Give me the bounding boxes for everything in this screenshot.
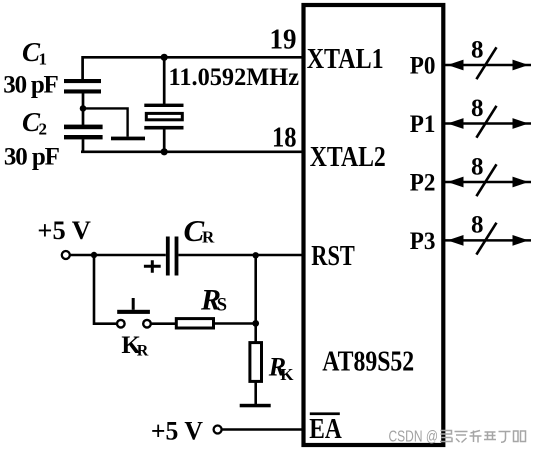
terminal circle +5V top xyxy=(62,251,70,259)
node junction RS/RK xyxy=(252,320,259,327)
svg-text:P0: P0 xyxy=(410,52,436,79)
terminal circle +5V bottom xyxy=(214,426,222,434)
ground bar (oscillator) xyxy=(111,137,145,141)
svg-text:XTAL1: XTAL1 xyxy=(307,43,384,75)
wire +5V down to switch xyxy=(94,255,117,324)
wire junction to RK xyxy=(254,323,257,344)
svg-text:RST: RST xyxy=(311,240,355,272)
resistor RK body xyxy=(250,343,262,382)
switch KR stem xyxy=(132,298,135,310)
wire pin18 rail from C2 bottom to XTAL2 xyxy=(81,139,302,152)
svg-text:8: 8 xyxy=(471,212,484,239)
svg-text:P1: P1 xyxy=(410,111,436,138)
svg-text:30 pF: 30 pF xyxy=(4,144,60,171)
svg-text:CSDN @: CSDN @ xyxy=(389,429,439,446)
node junction between C1 and C2 xyxy=(80,105,87,112)
switch KR right contact xyxy=(143,320,151,328)
wire crystal bottom stem xyxy=(163,130,166,152)
crystal Y1 bottom plate xyxy=(144,126,183,130)
port P1 group xyxy=(410,95,531,138)
svg-text:11.0592MHz: 11.0592MHz xyxy=(169,64,300,91)
wire ground branch xyxy=(83,108,128,136)
wire pin19 rail from C1 top to XTAL1 xyxy=(83,57,302,79)
CR polarity plus sign xyxy=(144,260,161,273)
svg-text:18: 18 xyxy=(272,123,297,154)
svg-text:AT89S52: AT89S52 xyxy=(322,347,414,378)
port P3 group xyxy=(410,212,531,255)
capacitor C2 bottom plate xyxy=(64,135,103,139)
bus slash P1 xyxy=(476,106,496,138)
capacitor CR right plate xyxy=(175,237,179,276)
crystal Y1 top plate xyxy=(144,104,183,107)
svg-text:8: 8 xyxy=(471,36,484,63)
wire +5V to EA xyxy=(222,428,302,431)
node junction on RST wire xyxy=(253,252,259,258)
capacitor C2 top plate xyxy=(64,125,103,130)
switch KR bridge bar xyxy=(117,310,150,314)
capacitor C1 bottom plate xyxy=(64,89,101,93)
wire C1 to C2 xyxy=(82,94,85,126)
svg-text:R: R xyxy=(202,228,215,247)
capacitor C1 top plate xyxy=(64,79,101,83)
port P2 group xyxy=(410,153,531,196)
bus arrow P0 xyxy=(445,64,531,67)
svg-text:P2: P2 xyxy=(410,169,436,196)
bus slash P0 xyxy=(476,47,496,79)
bus slash P3 xyxy=(476,223,496,255)
svg-text:XTAL2: XTAL2 xyxy=(310,141,386,173)
node junction on pin18 rail xyxy=(161,148,168,155)
port P0 group xyxy=(410,36,531,79)
svg-text:+5 V: +5 V xyxy=(151,417,203,446)
bus arrow P3 xyxy=(445,239,531,242)
bus arrow P1 xyxy=(445,122,531,125)
svg-text:K: K xyxy=(280,365,294,384)
svg-text:S: S xyxy=(217,296,227,316)
wire junction down to RS node xyxy=(254,255,257,323)
resistor RS body xyxy=(176,319,213,328)
wire crystal top stem xyxy=(163,57,166,104)
svg-text:30 pF: 30 pF xyxy=(3,72,59,99)
svg-text:2: 2 xyxy=(39,120,48,139)
svg-text:P3: P3 xyxy=(410,228,436,255)
svg-text:+5 V: +5 V xyxy=(37,216,91,245)
wire +5V to C_R xyxy=(70,254,166,257)
node junction on pin19 rail xyxy=(161,54,168,61)
switch KR left contact xyxy=(117,320,125,328)
bus slash P2 xyxy=(476,164,496,196)
wire RS to junction xyxy=(215,322,256,325)
svg-text:R: R xyxy=(137,343,149,360)
bus arrow P2 xyxy=(445,181,531,184)
wire switch to RS xyxy=(151,322,176,325)
EA overline xyxy=(310,412,340,415)
capacitor CR left plate xyxy=(166,237,170,276)
wire RK to ground xyxy=(254,381,257,404)
crystal Y1 body box xyxy=(146,113,182,119)
svg-text:EA: EA xyxy=(309,413,342,445)
IC U1 AT89S52 body xyxy=(304,5,444,445)
svg-text:19: 19 xyxy=(270,25,297,56)
svg-text:1: 1 xyxy=(39,50,48,69)
ground bar (RK) xyxy=(240,404,271,408)
wire C_R to RST xyxy=(178,254,301,257)
node junction at +5V rail xyxy=(91,252,97,258)
watermark CJK glyph blocks xyxy=(440,431,526,443)
svg-text:8: 8 xyxy=(471,153,484,180)
svg-text:8: 8 xyxy=(471,95,484,122)
